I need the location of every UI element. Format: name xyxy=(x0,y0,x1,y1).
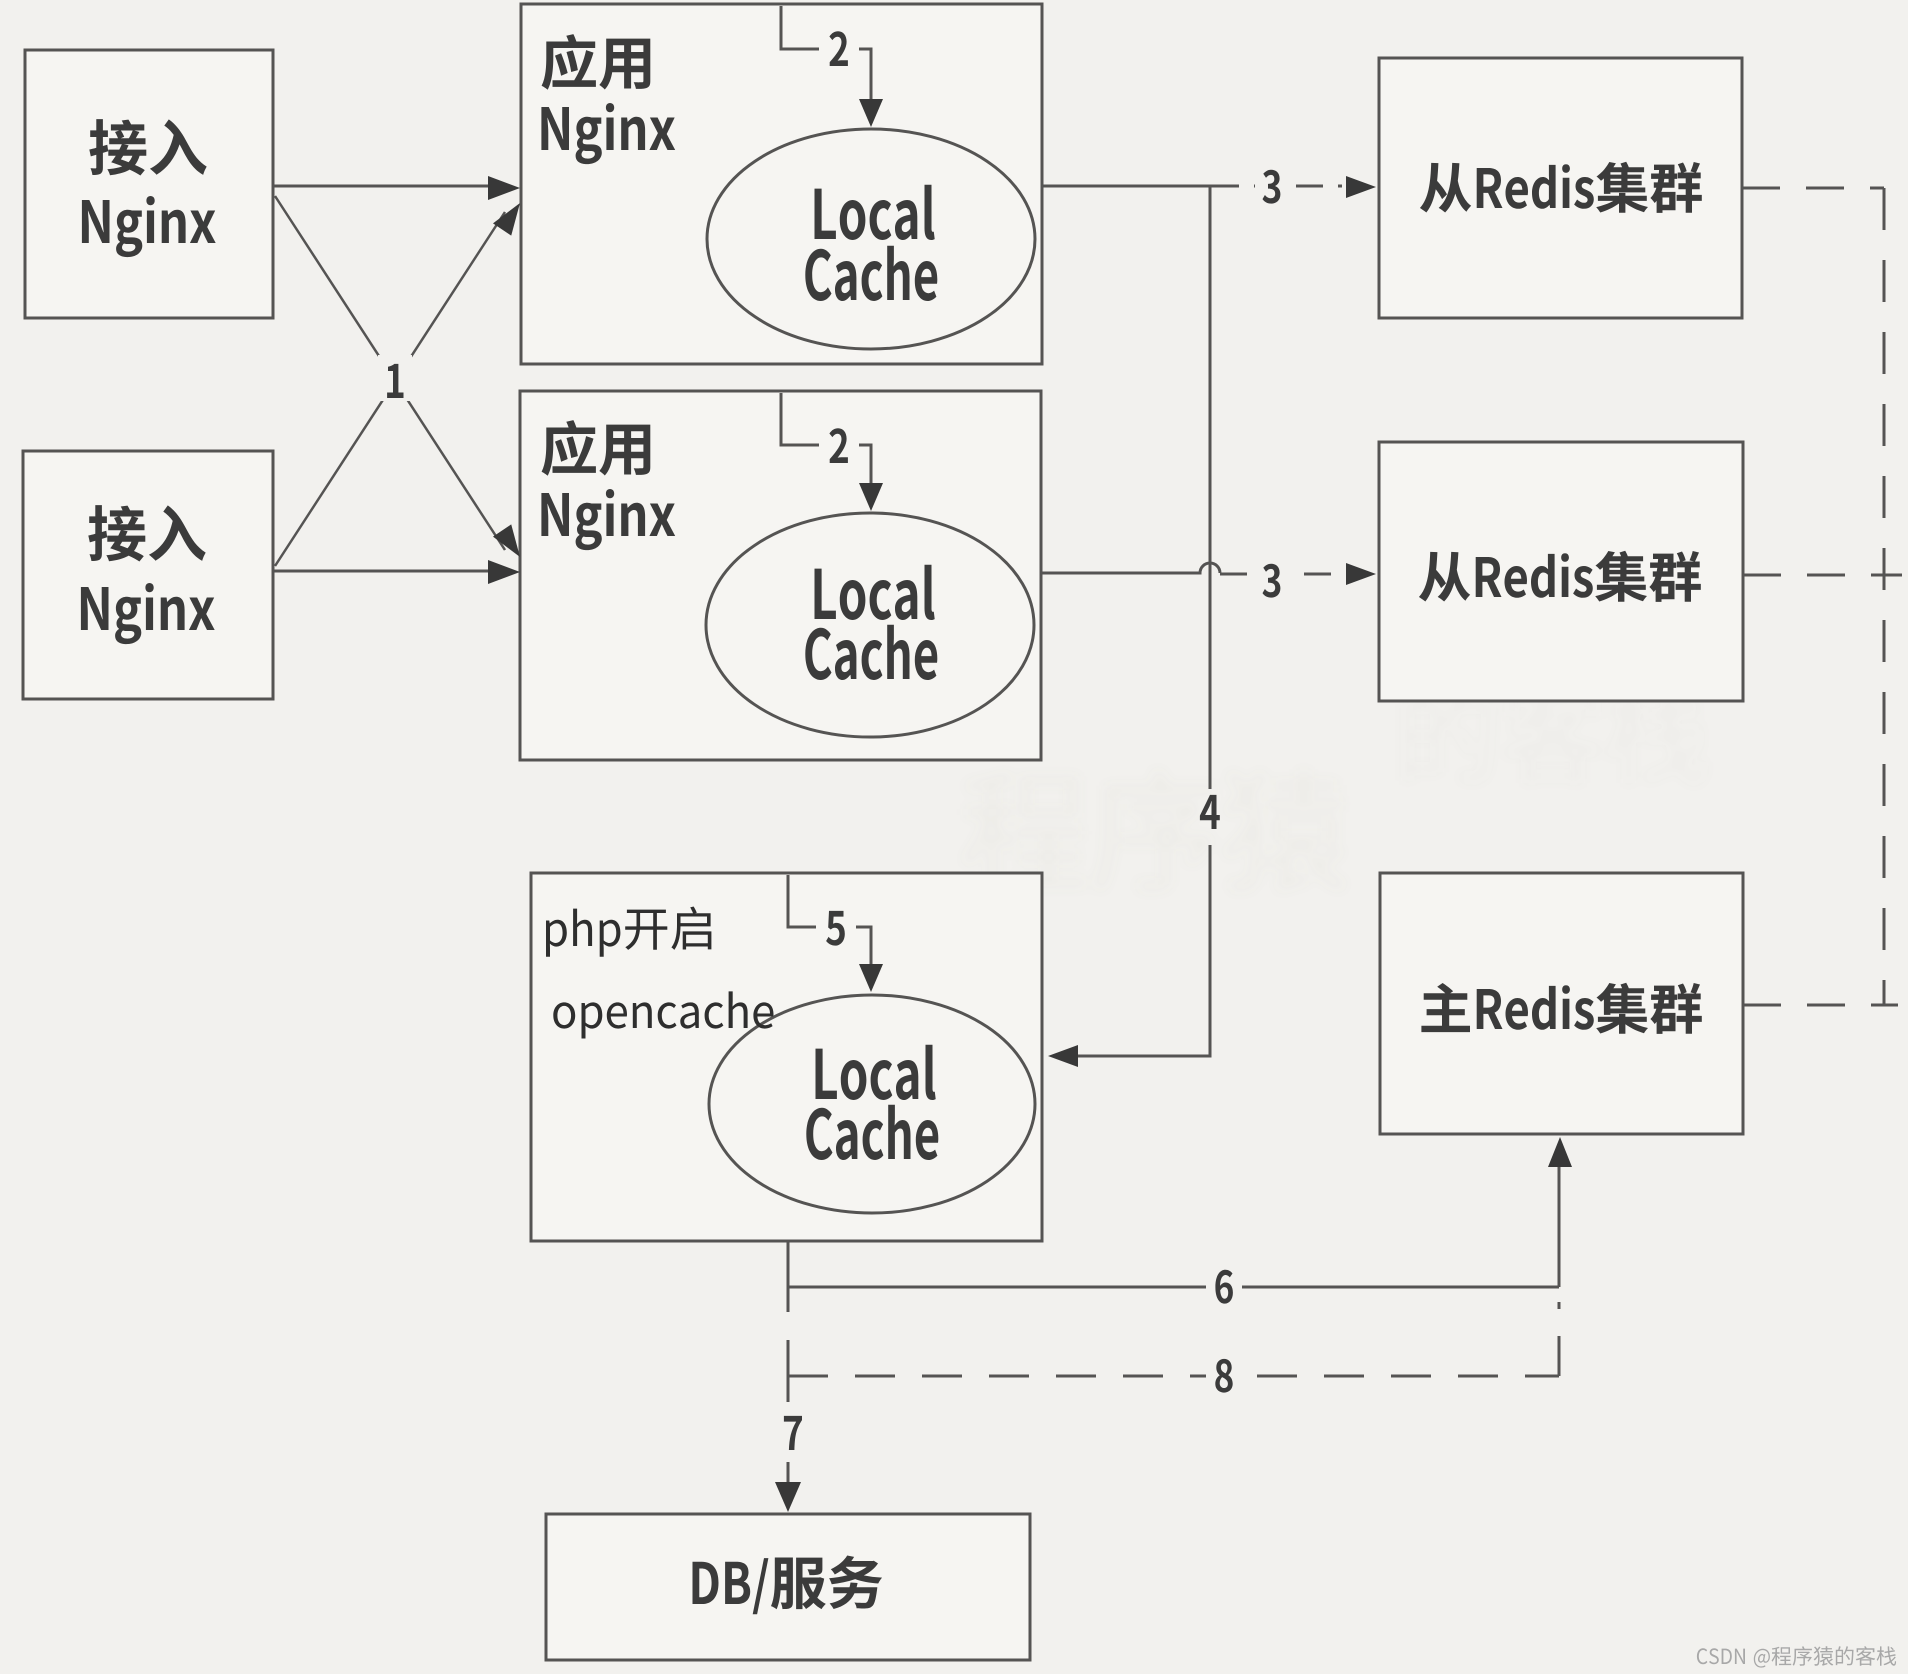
label 应用 (app box2) xyxy=(542,420,651,476)
wire 3 dashed (junction->redis2) xyxy=(1220,573,1342,576)
ellipse Local Cache #2 xyxy=(706,513,1034,737)
wire 3 solid (app1->junction) xyxy=(1042,185,1212,188)
arrowhead 2 down (app1) xyxy=(859,99,883,127)
dashed wire redis2 -> far right xyxy=(1743,574,1902,577)
label 从Redis集群 (mid) xyxy=(1419,551,1701,602)
arrowhead into app1 (horizontal) xyxy=(488,176,520,200)
wire access1 -> app2 (diagonal) xyxy=(275,196,505,550)
wire access2 -> app2 (horizontal) xyxy=(273,570,500,573)
wire 6 horizontal xyxy=(788,1286,1559,1289)
arrowhead 3 (redis2) xyxy=(1346,563,1376,585)
label 8 xyxy=(1206,1350,1242,1394)
label 主Redis集群 xyxy=(1421,983,1701,1034)
label opencache xyxy=(553,991,773,1038)
box slave-Redis #2 xyxy=(1379,442,1743,701)
label php开启 xyxy=(546,907,711,957)
label Nginx (box2) xyxy=(81,583,215,644)
label 接入 (box1) xyxy=(89,119,206,175)
label 6 xyxy=(1206,1262,1242,1306)
box access-Nginx #2 xyxy=(23,451,273,699)
arrowhead into app2 (horizontal) xyxy=(488,560,520,584)
box app-Nginx #1 xyxy=(521,4,1042,364)
dashed wire far-right vertical xyxy=(1883,188,1886,1004)
box app-Nginx #2 xyxy=(520,391,1041,760)
dashed wire redis1 -> far right xyxy=(1742,187,1884,190)
label 从Redis集群 (top) xyxy=(1420,162,1702,213)
box slave-Redis #1 xyxy=(1379,58,1742,318)
watermark CSDN @程序猿的客栈 xyxy=(1697,1646,1896,1667)
label 4 xyxy=(1200,795,1220,829)
wire 7/6 stem below php box xyxy=(787,1241,790,1312)
box master-Redis xyxy=(1380,873,1743,1134)
box DB/服务 xyxy=(546,1514,1030,1660)
label Nginx (app box1) xyxy=(541,103,675,164)
label 1 (load balance) xyxy=(378,355,412,401)
wire access2 -> app1 (diagonal) xyxy=(275,212,505,566)
label 接入 (box2) xyxy=(88,505,205,561)
label Local (ellipse1) xyxy=(815,185,935,240)
wire access1 -> app1 (horizontal) xyxy=(273,185,500,188)
label Cache (ellipse1) xyxy=(805,246,937,301)
label DB/服务 xyxy=(693,1556,883,1615)
wire 7 dash a xyxy=(787,1340,790,1402)
arrowhead 5 down (php) xyxy=(859,964,883,992)
arrowhead 4 (into php ellipse) xyxy=(1048,1045,1078,1067)
arrowhead 6 (master redis) xyxy=(1548,1137,1572,1167)
wire 8 dashed vertical xyxy=(1558,1302,1561,1376)
label 7 xyxy=(784,1416,802,1450)
label 2 (app1) xyxy=(819,24,859,70)
wire 4 vertical (lower) xyxy=(1209,845,1212,1055)
arrowhead 2 down (app2) xyxy=(859,483,883,511)
wire 3 solid with hop (app2->junction) xyxy=(1041,563,1220,573)
wire 5 bracket (php) xyxy=(788,875,871,977)
wire 2 bracket (app1) xyxy=(781,6,871,112)
arrowhead 3 (redis1) xyxy=(1346,176,1376,198)
label Local (ellipse3) xyxy=(816,1045,936,1100)
label Cache (ellipse3) xyxy=(806,1105,938,1160)
label Cache (ellipse2) xyxy=(805,625,937,680)
arrowhead 7 (DB) xyxy=(775,1482,801,1512)
wire 4 horizontal into php cache xyxy=(1062,1055,1212,1058)
label 5 xyxy=(816,903,856,949)
dashed wire master-redis -> far right xyxy=(1743,1004,1898,1007)
wire 3 dashed (junction->redis1) xyxy=(1212,185,1342,188)
arrowhead into app2 (diagonal) xyxy=(493,524,529,563)
box access-Nginx #1 xyxy=(25,50,273,318)
label 3 (top) xyxy=(1255,160,1289,204)
wire 7 dash b xyxy=(787,1462,790,1484)
label Nginx (box1) xyxy=(82,196,216,257)
arrowhead into app1 (diagonal) xyxy=(493,197,529,236)
label Local (ellipse2) xyxy=(815,565,935,620)
label 3 (mid) xyxy=(1255,555,1289,599)
wire 8 dashed horizontal xyxy=(788,1375,1559,1378)
ellipse Local Cache #1 xyxy=(707,129,1035,349)
wire 6 vertical up xyxy=(1558,1150,1561,1287)
wire 4 vertical (upper) xyxy=(1209,186,1212,789)
ellipse Local Cache #3 xyxy=(709,995,1035,1213)
box php-opencache xyxy=(531,873,1042,1241)
label 应用 (app box1) xyxy=(542,34,651,90)
wire 2 bracket (app2) xyxy=(781,393,871,497)
scan ghost watermark (faint) xyxy=(964,686,1706,891)
label 2 (app2) xyxy=(819,421,859,467)
label Nginx (app box2) xyxy=(541,489,675,550)
